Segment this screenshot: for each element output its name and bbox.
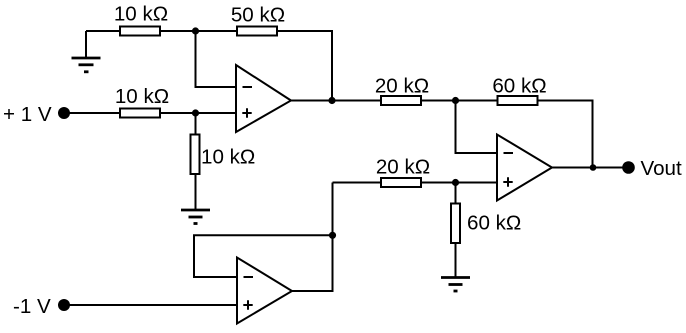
op-amp U1 [236, 65, 291, 132]
wire R4 to GND2 [195, 174, 197, 210]
op-amp U2 [497, 135, 552, 201]
ground GND3 [441, 278, 470, 292]
resistor R2 50 kΩ [231, 4, 285, 36]
wire node B down to R4 [195, 113, 197, 135]
junction node C (U1 output / feedback) [328, 97, 335, 104]
junction node D (U2 inverting path) [452, 97, 459, 104]
wire +1V terminal to R3 [64, 112, 120, 114]
svg-text:10 kΩ: 10 kΩ [115, 85, 169, 108]
resistor R5 20 kΩ [375, 75, 429, 106]
wire R8 to U2 non-inverting input [421, 182, 497, 184]
wire GND1 to R1 [86, 30, 120, 32]
resistor R3 10 kΩ [115, 85, 169, 118]
wire node A down to U1 inverting input [196, 31, 237, 87]
node Vout output terminal [622, 157, 682, 180]
wire R6 right then down to U2 output [538, 101, 593, 168]
wire feedback to U3 inverting input [194, 235, 333, 277]
resistor R6 60 kΩ [492, 75, 546, 106]
wire U3 branch to R8 (bottom row) [333, 182, 381, 184]
resistor R8 20 kΩ [376, 156, 430, 188]
wire node F down to R7 [455, 183, 457, 204]
wire U2 output to Vout [552, 167, 628, 169]
svg-text:-1 V: -1 V [13, 295, 51, 318]
ground GND1 (top-left) [72, 31, 101, 72]
junction node B (+ input / R4) [192, 109, 199, 116]
svg-text:60 kΩ: 60 kΩ [492, 75, 546, 98]
wire R1 to R2 [160, 30, 237, 32]
wire R5 to R6 [421, 100, 498, 102]
wire R3 to U1 non-inverting input [160, 112, 236, 114]
resistor R7 60 kΩ (vertical) [451, 204, 521, 244]
wire R7 to GND3 [455, 243, 457, 278]
wire U3 output right then up to bottom row [292, 183, 333, 292]
junction node A (top row to inverting path) [192, 27, 199, 34]
node +1 V input terminal [3, 103, 70, 126]
wire node D down to U2 inverting input [456, 101, 498, 154]
svg-text:20 kΩ: 20 kΩ [375, 75, 429, 98]
junction node E (feedback joins output) [590, 164, 597, 171]
svg-text:60 kΩ: 60 kΩ [467, 212, 521, 235]
svg-text:50 kΩ: 50 kΩ [231, 4, 285, 27]
svg-text:10 kΩ: 10 kΩ [201, 146, 255, 169]
resistor R1 10 kΩ [114, 3, 168, 36]
op-amp U3 [237, 258, 292, 324]
wire -1V terminal to U3 non-inverting input [64, 304, 237, 306]
resistor R4 10 kΩ (vertical) [191, 135, 256, 175]
svg-text:Vout: Vout [641, 157, 683, 180]
node -1 V input terminal [13, 295, 70, 318]
svg-text:10 kΩ: 10 kΩ [114, 3, 168, 26]
junction node F (+ input / R7) [452, 179, 459, 186]
svg-text:20 kΩ: 20 kΩ [376, 156, 430, 179]
wire R2 right then down to U1 output [277, 31, 332, 101]
svg-text:+ 1 V: + 1 V [3, 103, 52, 126]
ground GND2 [181, 210, 210, 224]
wire U1 output to R5 [291, 100, 380, 102]
junction node G (U3 feedback tap) [329, 232, 336, 239]
